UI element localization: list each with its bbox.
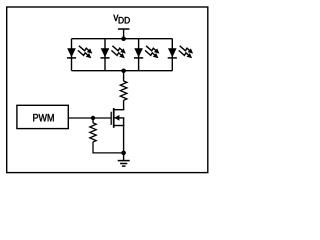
PWM block — [17, 105, 68, 128]
wire gate node to R2 — [92, 118, 94, 123]
wire R1 to drain — [123, 100, 125, 109]
ground — [118, 161, 130, 167]
LED D2 — [100, 46, 125, 58]
resistor R2 — [90, 123, 96, 142]
wire source to ground — [123, 126, 125, 161]
wire branch 3 — [138, 39, 140, 71]
net VDD label — [114, 15, 130, 24]
LED D3 — [134, 46, 159, 58]
wire bottom rail — [72, 70, 173, 72]
wire VDD stem — [123, 29, 125, 39]
resistor R1 — [120, 81, 127, 100]
wire branch 4 — [171, 39, 173, 71]
VDD terminal bar — [118, 28, 129, 30]
wire bottom rail to R1 — [123, 71, 125, 81]
junction dot bottom rail — [121, 69, 126, 74]
wire R2 to ground node — [93, 142, 124, 153]
wire PWM to gate — [68, 117, 110, 119]
LED D4 — [168, 46, 193, 58]
MOSFET Q1 — [111, 108, 124, 128]
junction dot gate node — [91, 116, 95, 120]
wire branch 2 — [104, 39, 106, 71]
wire branch 1 — [71, 39, 73, 71]
junction dot ground node — [121, 151, 126, 156]
wire top rail — [72, 38, 173, 40]
junction dot top rail — [121, 36, 126, 41]
LED D1 — [67, 46, 92, 58]
